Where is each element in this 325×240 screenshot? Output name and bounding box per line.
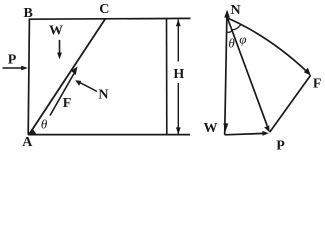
svg-text:θ: θ <box>228 36 235 51</box>
svg-text:φ: φ <box>239 32 246 47</box>
svg-text:N: N <box>98 87 108 102</box>
svg-text:N: N <box>230 3 240 18</box>
svg-text:W: W <box>49 23 63 38</box>
svg-text:F: F <box>63 96 72 111</box>
svg-text:θ: θ <box>41 116 48 131</box>
svg-text:F: F <box>313 77 322 92</box>
svg-text:H: H <box>173 67 184 82</box>
svg-text:C: C <box>99 2 109 17</box>
svg-text:A: A <box>22 135 33 150</box>
svg-text:B: B <box>24 6 33 21</box>
svg-text:P: P <box>8 53 17 68</box>
svg-text:P: P <box>276 139 285 154</box>
svg-text:W: W <box>204 121 218 136</box>
